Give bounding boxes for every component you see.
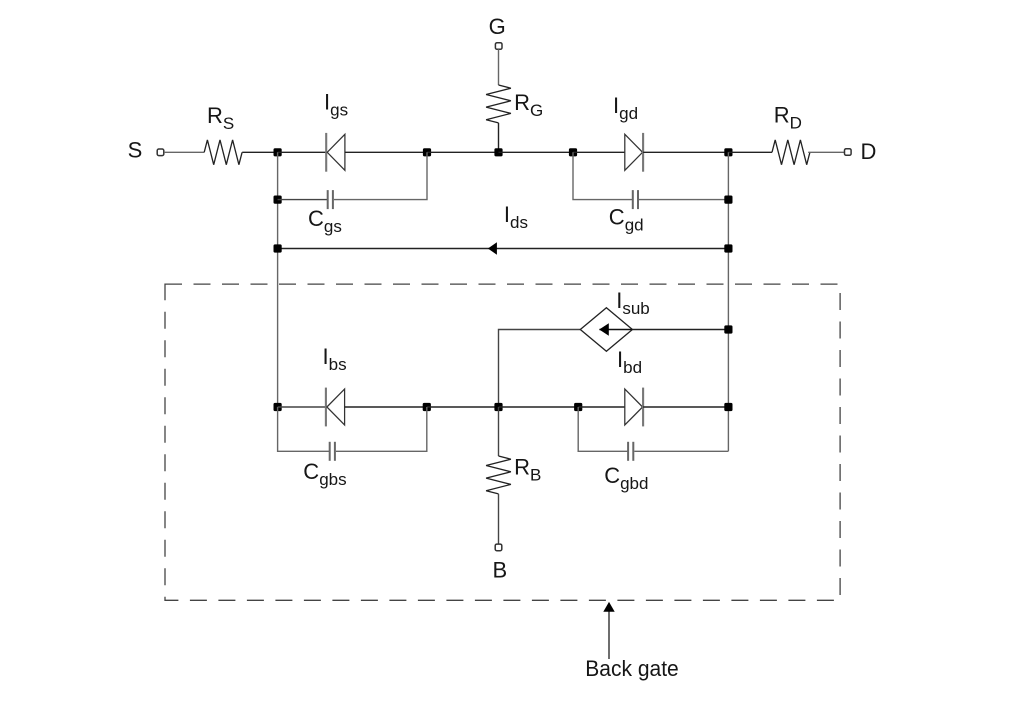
node A2 bbox=[274, 196, 282, 204]
node RB top bbox=[494, 403, 502, 411]
wire RG to node C bbox=[498, 123, 500, 152]
svg-text:S: S bbox=[128, 138, 143, 163]
wire Igs to node B bbox=[345, 151, 427, 153]
resistor RB bbox=[486, 456, 511, 494]
wire to RB node bbox=[427, 406, 499, 408]
wire Igd to node E bbox=[643, 151, 728, 153]
wire Cgd left bbox=[573, 152, 632, 199]
arrowhead Ids bbox=[488, 242, 497, 255]
wire node A to Igs bbox=[278, 151, 326, 153]
wire RD to terminal D bbox=[808, 151, 844, 153]
wire RB node to Ibd node bbox=[499, 406, 579, 408]
diode Ibd triangle bbox=[625, 389, 643, 425]
wire RB to terminal B bbox=[498, 494, 500, 544]
terminal B bbox=[495, 544, 502, 551]
node A bbox=[274, 148, 282, 156]
diode Igs cathode bar bbox=[325, 133, 327, 172]
node B-row fourth bbox=[574, 403, 582, 411]
node Ids left bbox=[274, 244, 282, 252]
node B-row left bbox=[274, 403, 282, 411]
wire Ibs to node bbox=[345, 406, 427, 408]
wire node D to Igd bbox=[573, 151, 625, 153]
capacitor Cgbs bbox=[330, 442, 335, 461]
node B bbox=[423, 148, 431, 156]
wire RB top bbox=[498, 407, 500, 456]
svg-text:D: D bbox=[860, 139, 876, 164]
back gate dashed box bbox=[165, 284, 840, 600]
wire S to RS bbox=[164, 151, 204, 153]
arrow inside Isub bbox=[599, 329, 632, 331]
terminal G bbox=[495, 43, 502, 50]
wire node C to node D bbox=[499, 151, 574, 153]
wire node B to node C bbox=[427, 151, 499, 153]
node C bbox=[494, 148, 502, 156]
wire Cgbs left bbox=[278, 407, 330, 451]
wire Cgbd left bbox=[578, 407, 627, 451]
wire to Ibd bbox=[578, 406, 625, 408]
resistor RG bbox=[486, 85, 511, 123]
wire Isub right bbox=[632, 329, 728, 331]
wire Ids bbox=[278, 248, 729, 250]
diode Igs triangle bbox=[327, 134, 345, 170]
wire Cgs right bbox=[334, 152, 427, 199]
node Isub right bbox=[724, 325, 732, 333]
node D bbox=[569, 148, 577, 156]
wire left column vertical bbox=[277, 152, 279, 407]
wire B-row left to Ibs bbox=[278, 406, 326, 408]
diode Ibd cathode bar bbox=[642, 388, 644, 427]
back gate arrow bbox=[608, 611, 610, 659]
wire G to RG bbox=[498, 49, 500, 85]
node B-row right bbox=[724, 403, 732, 411]
wire Ibd to node E-row bbox=[643, 406, 728, 408]
wire Isub left elbow bbox=[499, 330, 581, 408]
wire Cgs left bbox=[278, 199, 328, 201]
capacitor Cgd bbox=[633, 190, 638, 209]
svg-text:Back gate: Back gate bbox=[585, 656, 679, 681]
diode Igd cathode bar bbox=[642, 133, 644, 172]
resistor RD bbox=[772, 140, 810, 165]
wire Cgbs right bbox=[336, 407, 427, 451]
wire node E to RD bbox=[728, 151, 772, 153]
svg-text:B: B bbox=[493, 558, 508, 583]
diode Ibs cathode bar bbox=[325, 388, 327, 427]
terminal D bbox=[845, 149, 852, 156]
capacitor Cgbd bbox=[628, 442, 633, 461]
wire right column vertical bbox=[727, 152, 729, 451]
diode Ibs triangle bbox=[327, 389, 345, 425]
wire Cgbd right bbox=[634, 450, 728, 452]
resistor RS bbox=[204, 140, 242, 165]
node E2 bbox=[724, 196, 732, 204]
diode Igd triangle bbox=[625, 134, 643, 170]
capacitor Cgs bbox=[328, 190, 333, 209]
terminal S bbox=[157, 149, 164, 156]
current source Isub diamond bbox=[580, 308, 632, 352]
node E bbox=[724, 148, 732, 156]
node Ids right bbox=[724, 244, 732, 252]
wire Cgd right bbox=[639, 199, 728, 201]
node B-row second bbox=[423, 403, 431, 411]
svg-text:G: G bbox=[489, 14, 506, 39]
wire RS to node A bbox=[242, 151, 277, 153]
